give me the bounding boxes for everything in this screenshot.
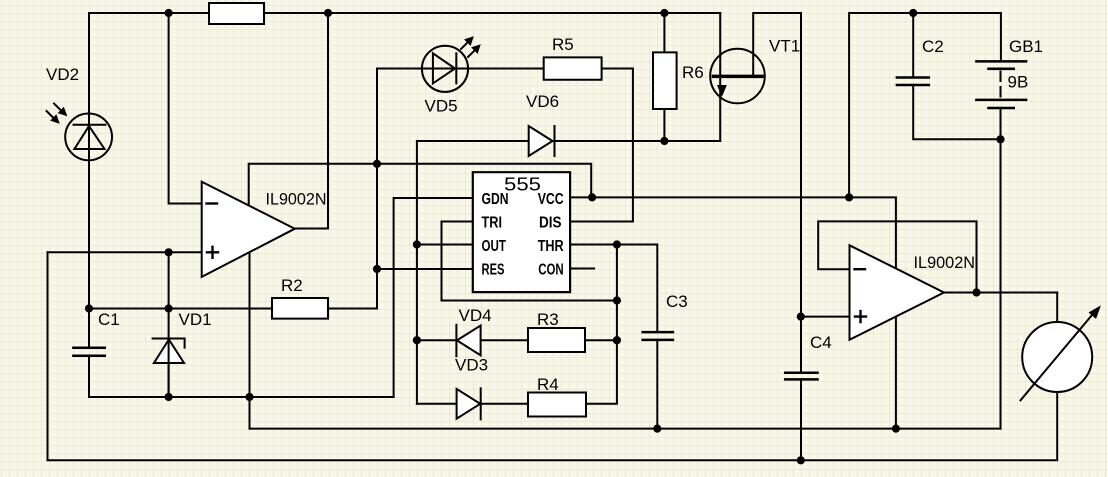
wire VD4 R3 line	[417, 339, 617, 341]
svg-text:VD3: VD3	[455, 356, 488, 375]
svg-text:C2: C2	[922, 37, 944, 56]
junction node 2	[324, 9, 332, 17]
meter PA1 circle	[1022, 322, 1092, 392]
LED VD5 diode symbol	[433, 53, 455, 83]
svg-text:C3: C3	[666, 292, 688, 311]
op-amp U2 plus sign	[855, 311, 866, 322]
wire OUT riser and VD6 line	[417, 141, 720, 404]
wire op-amp U1 inverting input	[169, 13, 202, 204]
wire VD3 R4 line riser	[417, 245, 617, 404]
diode VD6	[529, 126, 553, 156]
battery GB1 plates	[976, 61, 1026, 100]
resistor R1 (top feedback)	[209, 3, 264, 24]
svg-text:VD1: VD1	[179, 310, 212, 329]
wire OUT pin stub	[417, 244, 473, 246]
transistor VT1 channel bar	[714, 75, 763, 79]
svg-text:VD6: VD6	[526, 92, 559, 111]
transistor VT1 arrow	[718, 86, 726, 96]
junction node 25	[972, 288, 980, 296]
LED VD5 circle	[422, 46, 468, 92]
svg-text:R4: R4	[537, 375, 559, 394]
svg-text:VD5: VD5	[425, 97, 458, 116]
battery GB1 dashed middle	[1000, 72, 1002, 98]
wire ground rail left	[89, 396, 394, 398]
svg-text:VCC: VCC	[538, 191, 564, 208]
op-amp U1 IL9002N triangle	[202, 182, 295, 277]
resistor R2	[272, 298, 328, 319]
svg-text:555: 555	[504, 175, 541, 195]
wire op-amp U1 bottom power pin riser	[249, 252, 251, 428]
junction node 8	[660, 137, 668, 145]
resistor R6	[653, 52, 677, 109]
wire right riser from top rail to C4	[800, 13, 802, 372]
meter PA1 arrow	[1021, 315, 1093, 400]
svg-text:R5: R5	[552, 35, 574, 54]
diode VD3	[457, 389, 481, 419]
capacitor C2	[897, 78, 929, 86]
wire R6 branch vertical	[663, 13, 665, 141]
svg-text:9B: 9B	[1008, 73, 1029, 92]
junction node 20	[165, 393, 173, 401]
svg-text:R2: R2	[281, 276, 303, 295]
junction node 7	[845, 193, 853, 201]
diode VD4	[457, 326, 481, 356]
wire C2 branch	[912, 13, 914, 77]
zener diode VD1	[154, 340, 184, 364]
wire mid rail (ground return)	[250, 428, 1001, 430]
wire C3 bottom stub	[656, 341, 658, 429]
wire top rail left segment	[89, 12, 720, 14]
wire op-amp U2 non-inverting input	[801, 316, 850, 318]
junction node 12	[165, 248, 173, 256]
wire GB1 bottom riser to mid rail	[1000, 108, 1002, 429]
wire C2 bottom to GB1 bottom	[913, 86, 1000, 140]
op-amp U2 minus sign	[855, 268, 866, 270]
junction node 11	[613, 240, 621, 248]
svg-text:DIS: DIS	[539, 215, 562, 232]
svg-text:CON: CON	[538, 261, 564, 278]
junction node 19	[613, 336, 621, 344]
svg-text:THR: THR	[538, 238, 564, 255]
svg-text:TRI: TRI	[482, 215, 503, 232]
svg-text:IL9002N: IL9002N	[266, 189, 327, 208]
photodiode VD2 diode symbol	[74, 126, 104, 149]
junction node 15	[85, 304, 93, 312]
junction node 4	[909, 9, 917, 17]
svg-text:GDN: GDN	[482, 191, 509, 208]
wire C4 bottom stub	[800, 381, 802, 461]
timer IC 555 box	[473, 172, 570, 292]
svg-text:RES: RES	[482, 261, 505, 278]
capacitor C3	[643, 332, 673, 340]
svg-text:OUT: OUT	[482, 238, 507, 255]
junction node 9	[996, 135, 1004, 143]
op-amp U2 IL9002N triangle	[850, 245, 945, 339]
wire VCC line across to mid rail	[570, 197, 896, 428]
wire VT1 source vertical	[719, 13, 721, 141]
junction node 18	[413, 336, 421, 344]
wire meter bottom stub	[1056, 392, 1058, 461]
resistor R4	[528, 393, 586, 417]
junction node 23	[892, 425, 900, 433]
svg-text:VD2: VD2	[46, 65, 79, 84]
svg-text:C4: C4	[810, 333, 832, 352]
wire VT1 drain to top rail segment 2	[753, 13, 801, 76]
wire op-amp U2 output to meter	[944, 292, 1057, 294]
wire bottom rail (plus net)	[48, 252, 1056, 460]
LED VD5 emission arrows	[461, 43, 467, 49]
resistor R5	[544, 57, 602, 79]
svg-text:GB1: GB1	[1009, 37, 1043, 56]
junction node 5	[373, 160, 381, 168]
wire R2 to VD5 riser	[328, 69, 544, 309]
capacitor C1	[88, 309, 90, 398]
wire THR pin to C3	[570, 245, 657, 332]
junction node 16	[165, 304, 173, 312]
svg-text:IL9002N: IL9002N	[914, 253, 976, 272]
wire VD1 branch vertical	[168, 252, 170, 397]
junction node 10	[413, 240, 421, 248]
svg-text:R6: R6	[682, 63, 704, 82]
capacitor C4	[785, 373, 817, 380]
junction node 17	[797, 313, 805, 321]
wire RES pin line	[377, 268, 473, 270]
junction node 14	[613, 296, 621, 304]
svg-text:R3: R3	[537, 310, 559, 329]
op-amp U1 minus sign	[207, 202, 218, 204]
photodiode VD2 circle	[65, 113, 112, 160]
wire CON pin stub	[570, 268, 594, 270]
junction node 21	[245, 393, 253, 401]
wire node line C1-VD1-R2	[89, 308, 272, 310]
wire TRI pin loop	[442, 222, 617, 301]
junction node 6	[588, 193, 596, 201]
junction node 24	[797, 456, 805, 464]
photodiode VD2 light arrows	[54, 104, 61, 111]
svg-text:VT1: VT1	[769, 37, 800, 56]
wire meter top stub	[1056, 293, 1058, 323]
junction node 13	[373, 265, 381, 273]
wire R5 to DIS pin	[570, 69, 633, 222]
wire op-amp U1 non-inverting input	[48, 251, 202, 253]
junction node 1	[165, 9, 173, 17]
svg-text:C1: C1	[98, 310, 120, 329]
wire op-amp U1 top power pin to VCC net	[249, 164, 592, 206]
transistor VT1 circle	[710, 49, 765, 104]
svg-text:VD4: VD4	[459, 306, 492, 325]
wire op-amp U1 output feedback riser	[295, 13, 328, 229]
wire op-amp U2 feedback loop	[818, 221, 976, 292]
wire top rail segment 3 with GB1 corner	[849, 13, 1001, 197]
junction node 3	[660, 9, 668, 17]
resistor R3	[528, 328, 585, 352]
op-amp U1 plus sign	[207, 247, 218, 258]
wire GDN pin to ground rail	[394, 198, 473, 397]
wire VD2 branch vertical	[88, 13, 90, 309]
junction node 22	[653, 425, 661, 433]
